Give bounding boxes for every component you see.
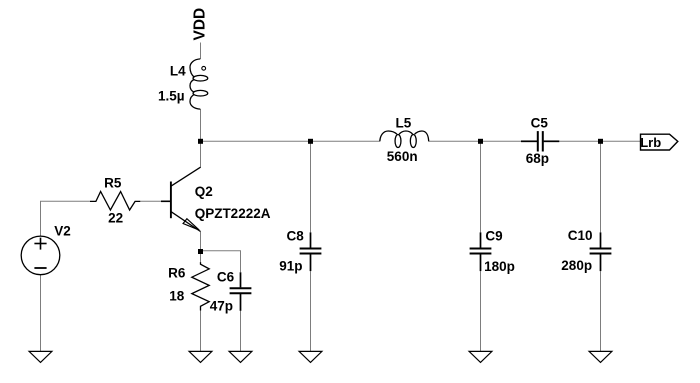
svg-text:R5: R5 bbox=[104, 176, 122, 191]
svg-text:R6: R6 bbox=[168, 266, 186, 281]
svg-text:C9: C9 bbox=[485, 228, 502, 243]
svg-text:L4: L4 bbox=[170, 64, 186, 79]
svg-text:C8: C8 bbox=[287, 228, 305, 243]
svg-text:Q2: Q2 bbox=[195, 184, 213, 199]
svg-text:Lrb: Lrb bbox=[640, 135, 661, 150]
svg-text:C10: C10 bbox=[568, 228, 593, 243]
svg-text:VDD: VDD bbox=[192, 8, 209, 41]
svg-text:C5: C5 bbox=[531, 116, 549, 131]
svg-text:91p: 91p bbox=[279, 259, 302, 274]
svg-text:22: 22 bbox=[108, 210, 123, 225]
svg-text:280p: 280p bbox=[561, 258, 592, 273]
svg-text:L5: L5 bbox=[396, 116, 412, 131]
svg-text:C6: C6 bbox=[217, 270, 235, 285]
svg-text:560n: 560n bbox=[387, 149, 418, 164]
svg-text:1.5µ: 1.5µ bbox=[158, 89, 185, 104]
svg-text:QPZT2222A: QPZT2222A bbox=[195, 206, 271, 221]
svg-text:47p: 47p bbox=[210, 298, 233, 313]
svg-text:180p: 180p bbox=[484, 259, 515, 274]
svg-text:18: 18 bbox=[169, 289, 185, 304]
svg-text:V2: V2 bbox=[54, 223, 71, 238]
svg-text:68p: 68p bbox=[526, 151, 549, 166]
